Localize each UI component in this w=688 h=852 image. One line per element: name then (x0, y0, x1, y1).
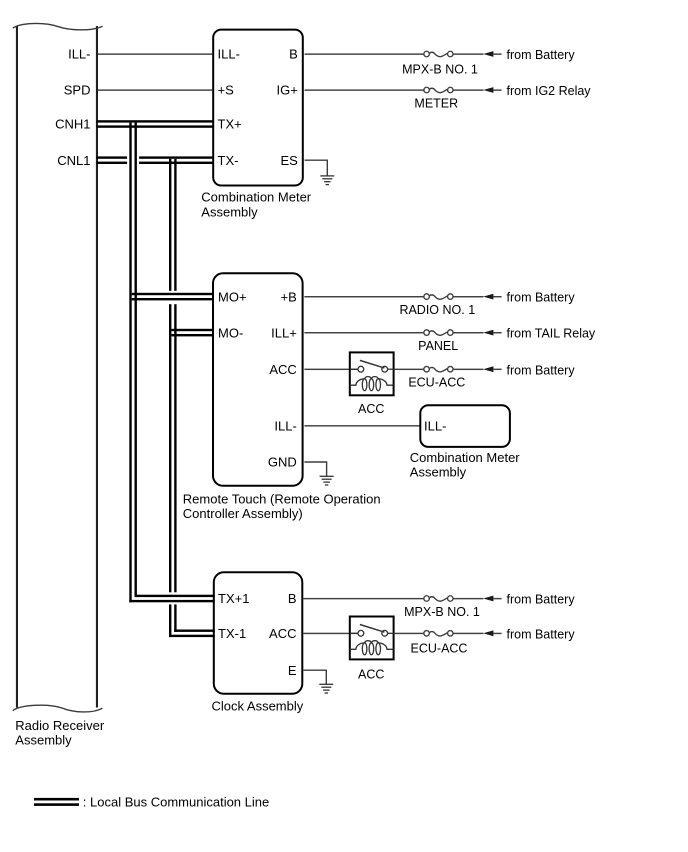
local bus TX-1 double line (corner from L bus) (174, 630, 215, 632)
svg-text:+B: +B (281, 289, 297, 304)
svg-text:MO+: MO+ (218, 289, 247, 304)
svg-text:from Battery: from Battery (507, 593, 576, 607)
break wave bottom of Radio Receiver Assembly (13, 705, 103, 712)
connector box: Combination Meter Assembly U1 (213, 30, 303, 186)
arrow from Battery (row ILL-/B) (483, 51, 493, 57)
svg-text:+S: +S (218, 83, 235, 98)
svg-text:IG+: IG+ (276, 83, 297, 98)
local bus L vertical double line (broken at MO+ and TX+1 crossings) (169, 159, 171, 291)
svg-text:MPX-B NO. 1: MPX-B NO. 1 (404, 605, 480, 619)
svg-text:ILL-: ILL- (274, 418, 296, 433)
svg-text:B: B (288, 591, 297, 606)
connector box: Radio Receiver Assembly (left vertical line) (16, 26, 18, 708)
connector box: Remote Touch (Remote Operation Controller Assembly) U2 (213, 273, 303, 485)
fuse METER (424, 87, 453, 93)
wire fuse to arrow (ILL+ row) (453, 332, 483, 333)
svg-text:Clock Assembly: Clock Assembly (212, 698, 304, 713)
svg-text:PANEL: PANEL (418, 339, 458, 353)
svg-text:CNL1: CNL1 (57, 153, 90, 168)
wire relay to fuse ECU-ACC (395, 369, 424, 370)
svg-text:TX+1: TX+1 (218, 591, 249, 606)
relay ACC (remote touch) (350, 352, 394, 395)
arrow from Battery (ACC row) (483, 366, 493, 372)
svg-text:: Local Bus Communication Line: : Local Bus Communication Line (83, 794, 269, 809)
connector box: Combination Meter Assembly (ILL-) (420, 405, 510, 447)
wire fuse to arrow (+B row) (453, 296, 483, 297)
wire GND to ground (304, 462, 326, 476)
legend: local bus sample double line (34, 798, 79, 801)
svg-text:GND: GND (268, 455, 297, 470)
wire IG+ to fuse METER (305, 89, 424, 90)
svg-text:from TAIL Relay: from TAIL Relay (507, 327, 596, 341)
svg-text:from Battery: from Battery (507, 291, 576, 305)
svg-text:Assembly: Assembly (15, 732, 72, 747)
wire ILL+ to fuse PANEL (304, 332, 423, 333)
wire B to fuse MPX-B NO.1 (305, 53, 424, 54)
svg-text:Controller Assembly): Controller Assembly) (183, 506, 303, 521)
svg-text:from Battery: from Battery (507, 48, 576, 62)
svg-text:ECU-ACC: ECU-ACC (408, 375, 465, 389)
arrow from IG2 Relay (483, 87, 493, 93)
fuse MPX-B NO. 1 (clock) (424, 596, 453, 602)
arrow from TAIL Relay (483, 330, 493, 336)
svg-text:Remote Touch (Remote Operation: Remote Touch (Remote Operation (183, 491, 381, 506)
local bus H vertical double line (129, 123, 131, 603)
arrow from Battery (B clock row) (483, 596, 493, 602)
wire ACC (clock) to relay (303, 633, 358, 634)
svg-text:from Battery: from Battery (507, 627, 576, 641)
svg-text:Combination Meter: Combination Meter (410, 450, 520, 465)
svg-text:MPX-B NO. 1: MPX-B NO. 1 (402, 63, 478, 77)
svg-text:ES: ES (280, 153, 298, 168)
connector box: Radio Receiver Assembly (right vertical line) (96, 26, 98, 708)
wire ILL- to combination meter (98, 53, 213, 54)
svg-text:ILL+: ILL+ (271, 325, 297, 340)
wire SPD to +S (98, 89, 213, 90)
svg-text:ACC: ACC (358, 402, 384, 416)
svg-text:SPD: SPD (64, 83, 91, 98)
local bus MO+ branch double line (132, 293, 214, 295)
wire fuse to arrow (from Battery) (453, 53, 483, 54)
svg-text:TX+: TX+ (218, 117, 242, 132)
svg-text:Assembly: Assembly (201, 204, 258, 219)
svg-text:CNH1: CNH1 (55, 117, 90, 132)
svg-text:Radio Receiver: Radio Receiver (15, 718, 105, 733)
svg-text:Combination Meter: Combination Meter (201, 190, 311, 205)
break wave top of Radio Receiver Assembly (13, 23, 103, 29)
svg-text:ILL-: ILL- (68, 47, 90, 62)
fuse RADIO NO. 1 (424, 294, 453, 300)
svg-text:ACC: ACC (269, 362, 296, 377)
wire ACC to relay (304, 369, 358, 370)
wire ILL- to small combination meter box (304, 425, 419, 426)
wire fuse to arrow (ACC row) (453, 369, 483, 370)
wire B (clock) to fuse MPX-B NO.1 (303, 598, 423, 599)
svg-text:TX-1: TX-1 (218, 626, 246, 641)
svg-text:TX-: TX- (218, 153, 239, 168)
local bus CNL1 horizontal double line (broken at H-bus crossing) (97, 156, 128, 158)
svg-text:B: B (289, 47, 298, 62)
wire E to ground (303, 670, 326, 684)
svg-text:RADIO NO. 1: RADIO NO. 1 (399, 303, 475, 317)
local bus TX+1 double line (corner from H bus) (135, 595, 215, 597)
arrow from Battery (+B row) (483, 294, 493, 300)
connector box: Clock Assembly U3 (214, 572, 302, 693)
wire relay to fuse ECU-ACC (clock) (395, 633, 424, 634)
svg-text:from Battery: from Battery (507, 363, 576, 377)
svg-text:from IG2 Relay: from IG2 Relay (507, 84, 592, 98)
wire +B to fuse RADIO NO.1 (304, 296, 423, 297)
svg-text:ILL-: ILL- (424, 418, 446, 433)
local bus MO- branch double line (171, 329, 213, 331)
wire ES to ground (305, 160, 328, 176)
ground (E) (319, 684, 333, 693)
ground (GND) (320, 476, 334, 485)
arrow from Battery (ACC clock row) (483, 630, 493, 636)
wire fuse to arrow (ACC clock row) (453, 633, 483, 634)
wire fuse to arrow (B clock row) (453, 598, 483, 599)
svg-text:ILL-: ILL- (218, 47, 240, 62)
fuse MPX-B NO. 1 (meter B) (424, 51, 453, 57)
svg-text:ACC: ACC (269, 626, 296, 641)
fuse PANEL (424, 330, 453, 336)
svg-text:MO-: MO- (218, 325, 243, 340)
wire fuse to arrow (from IG2 Relay) (453, 89, 483, 90)
svg-text:ACC: ACC (358, 667, 384, 681)
local bus CNH1 horizontal double line (97, 120, 213, 122)
fuse ECU-ACC (remote touch row) (424, 366, 453, 372)
svg-text:Assembly: Assembly (410, 464, 467, 479)
svg-text:ECU-ACC: ECU-ACC (411, 642, 468, 656)
svg-text:METER: METER (414, 96, 458, 110)
ground (ES) (320, 176, 334, 185)
relay ACC (clock) (350, 617, 394, 660)
fuse ECU-ACC (clock) (424, 631, 453, 637)
svg-text:E: E (288, 663, 297, 678)
